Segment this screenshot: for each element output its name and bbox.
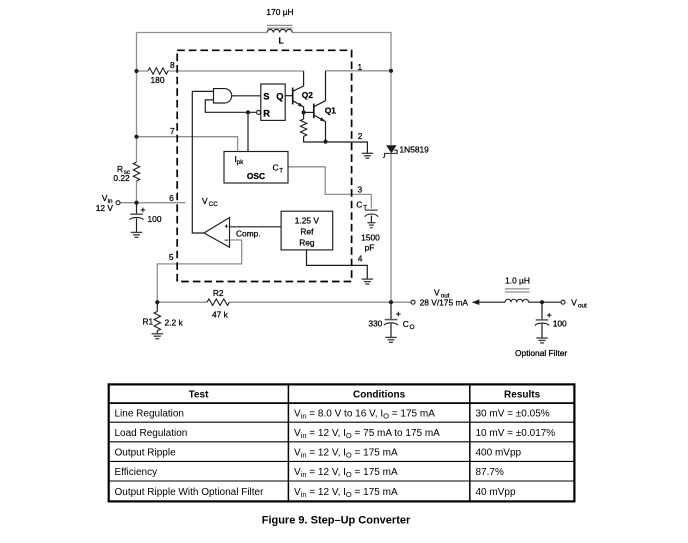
svg-text:Vin = 12 V, IO = 175 mA: Vin = 12 V, IO = 175 mA	[294, 487, 398, 499]
svg-text:S: S	[263, 91, 269, 101]
svg-text:R: R	[263, 108, 270, 118]
svg-text:V: V	[434, 287, 440, 297]
svg-text:3: 3	[358, 185, 363, 195]
svg-text:Figure 9. Step–Up Converter: Figure 9. Step–Up Converter	[262, 514, 411, 526]
svg-text:Reg: Reg	[299, 238, 315, 248]
svg-text:Output Ripple: Output Ripple	[115, 448, 177, 459]
svg-text:1N5819: 1N5819	[400, 145, 430, 155]
svg-text:6: 6	[169, 193, 174, 203]
svg-text:V: V	[571, 298, 577, 308]
svg-text:Optional Filter: Optional Filter	[515, 348, 567, 358]
svg-text:400 mVpp: 400 mVpp	[476, 448, 522, 459]
svg-text:Test: Test	[189, 390, 209, 401]
svg-text:1.25 V: 1.25 V	[295, 216, 320, 226]
svg-text:Load Regulation: Load Regulation	[115, 428, 188, 439]
svg-text:Conditions: Conditions	[353, 390, 406, 401]
svg-text:C: C	[356, 200, 362, 210]
svg-text:10 mV = ±0.017%: 10 mV = ±0.017%	[476, 428, 556, 439]
svg-text:170 µH: 170 µH	[266, 7, 293, 17]
svg-text:12 V: 12 V	[96, 203, 114, 213]
svg-text:C: C	[273, 163, 279, 173]
svg-text:4: 4	[358, 254, 363, 264]
svg-text:1: 1	[358, 62, 363, 72]
svg-text:R1: R1	[143, 317, 154, 327]
svg-text:30 mV = ±0.05%: 30 mV = ±0.05%	[476, 408, 550, 419]
svg-text:CC: CC	[209, 201, 219, 208]
svg-text:T: T	[363, 205, 367, 212]
svg-text:V: V	[202, 196, 208, 206]
svg-text:O: O	[410, 324, 415, 331]
svg-text:47 k: 47 k	[212, 309, 229, 319]
svg-text:C: C	[403, 319, 409, 329]
svg-text:pF: pF	[365, 242, 375, 252]
svg-text:40 mVpp: 40 mVpp	[476, 487, 516, 498]
svg-text:1500: 1500	[361, 232, 380, 242]
svg-text:180: 180	[151, 75, 165, 85]
svg-text:Results: Results	[504, 390, 541, 401]
svg-text:Efficiency: Efficiency	[115, 467, 158, 478]
svg-text:Comp.: Comp.	[236, 228, 261, 238]
svg-text:Line Regulation: Line Regulation	[115, 408, 185, 419]
svg-text:Q1: Q1	[325, 105, 337, 115]
svg-text:T: T	[279, 168, 283, 175]
svg-text:Vin = 8.0 V to 16 V, IO = 175: Vin = 8.0 V to 16 V, IO = 175 mA	[294, 408, 435, 420]
svg-text:2.2 k: 2.2 k	[165, 318, 184, 328]
svg-text:pk: pk	[237, 159, 245, 166]
svg-text:7: 7	[170, 126, 175, 136]
svg-text:Q2: Q2	[302, 90, 314, 100]
svg-text:R2: R2	[213, 288, 224, 298]
svg-text:OSC: OSC	[247, 171, 265, 181]
svg-text:5: 5	[169, 252, 174, 262]
svg-text:100: 100	[148, 214, 162, 224]
svg-text:Ref: Ref	[300, 227, 314, 237]
svg-text:Vin = 12 V, IO = 75 mA to 175: Vin = 12 V, IO = 75 mA to 175 mA	[294, 428, 440, 440]
svg-text:Q: Q	[276, 92, 283, 102]
svg-text:330: 330	[368, 318, 382, 328]
svg-text:Output Ripple With Optional Fi: Output Ripple With Optional Filter	[115, 487, 265, 498]
svg-text:8: 8	[170, 60, 175, 70]
svg-text:Vin = 12 V, IO = 175 mA: Vin = 12 V, IO = 175 mA	[294, 467, 398, 479]
svg-text:0.22: 0.22	[113, 173, 130, 183]
svg-text:28 V/175 mA: 28 V/175 mA	[420, 298, 469, 308]
svg-text:87.7%: 87.7%	[476, 467, 504, 478]
svg-text:1.0 µH: 1.0 µH	[505, 276, 530, 286]
svg-text:L: L	[278, 36, 283, 46]
svg-text:out: out	[578, 303, 587, 310]
svg-text:100: 100	[553, 319, 567, 329]
svg-text:2: 2	[358, 131, 363, 141]
svg-text:Vin = 12 V, IO = 175 mA: Vin = 12 V, IO = 175 mA	[294, 448, 398, 460]
